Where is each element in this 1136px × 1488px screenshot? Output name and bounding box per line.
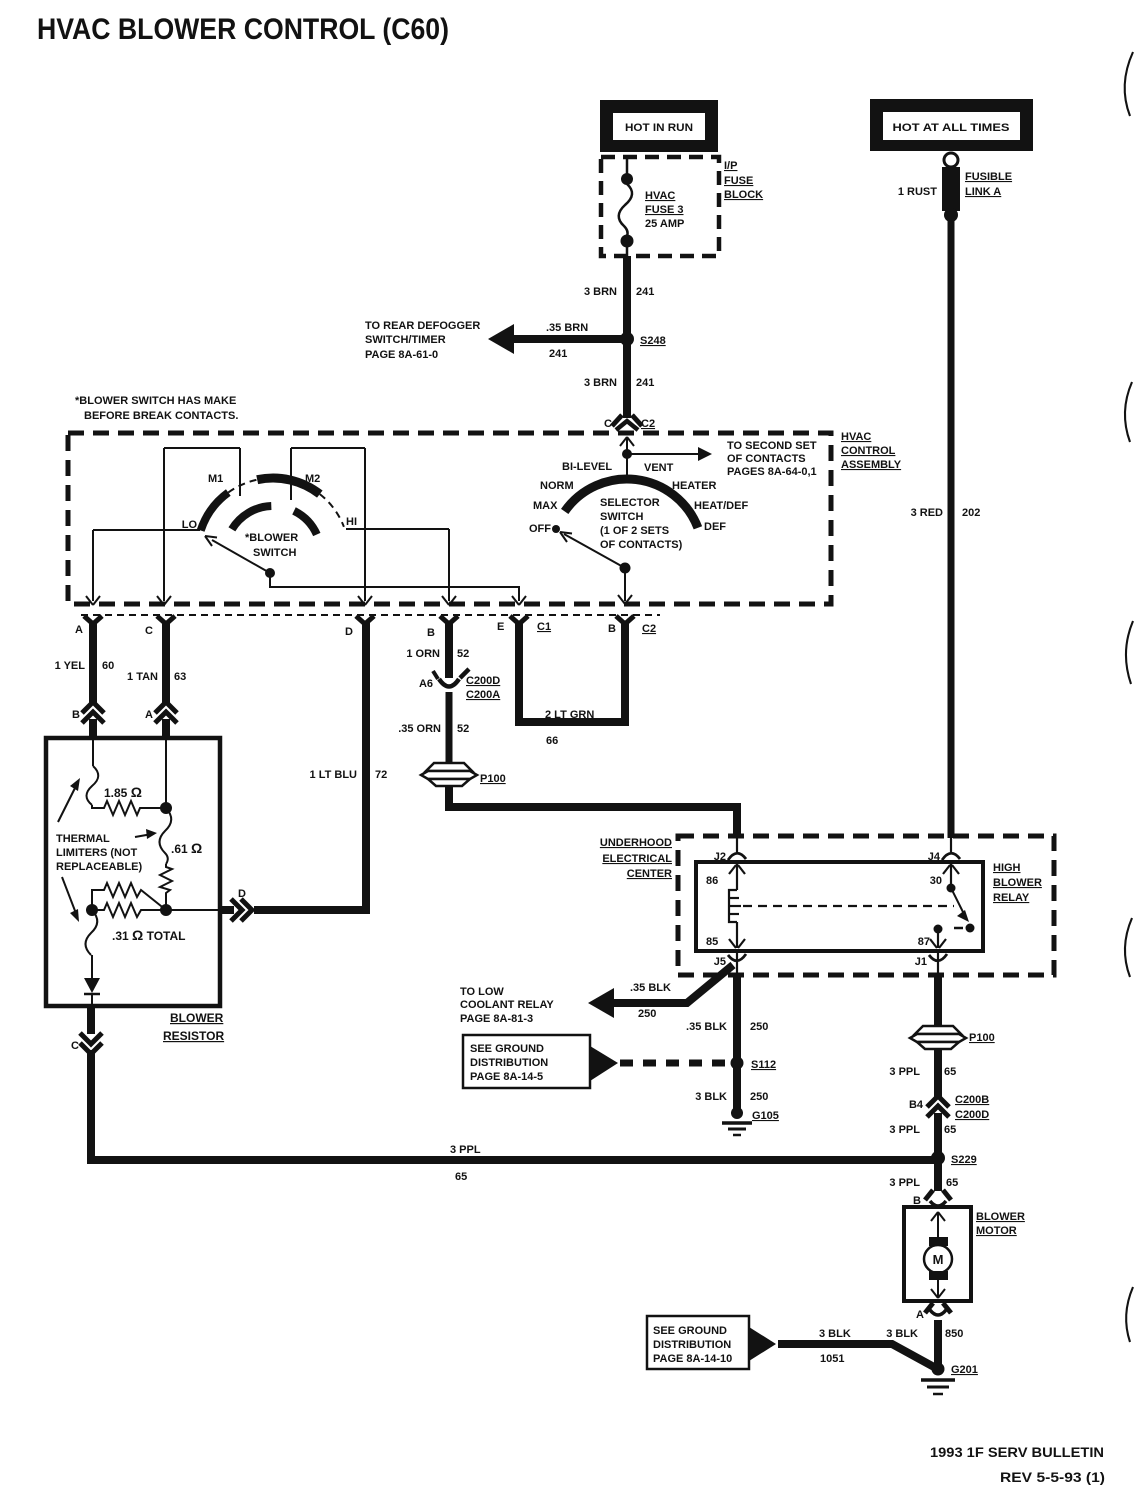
wire stub resistor box edge to connector D: [220, 906, 234, 914]
svg-text:52: 52: [457, 648, 469, 660]
svg-text:S229: S229: [951, 1154, 977, 1166]
svg-text:3 BRN: 3 BRN: [584, 286, 617, 298]
svg-text:B: B: [427, 627, 435, 639]
svg-text:S112: S112: [751, 1059, 776, 1071]
svg-text:ASSEMBLY: ASSEMBLY: [841, 459, 902, 471]
svg-text:.35 BLK: .35 BLK: [630, 982, 671, 994]
fusible link A circle terminal: [944, 153, 958, 167]
svg-text:250: 250: [750, 1021, 768, 1033]
relay switch throw: [947, 884, 970, 923]
wire blower rotor to pin E C1 with arrow: [270, 573, 526, 605]
svg-text:S248: S248: [640, 335, 666, 347]
svg-text:.61 Ω: .61 Ω: [171, 840, 202, 856]
svg-text:241: 241: [636, 286, 654, 298]
svg-text:C200D: C200D: [955, 1109, 989, 1121]
relay contact 87 node and gap: [934, 924, 975, 934]
label TO REAR DEFOGGER SWITCH/TIMER PAGE 8A-61-0: [365, 320, 480, 361]
pin C terminal: [145, 616, 175, 637]
svg-text:CENTER: CENTER: [627, 868, 672, 880]
wire P100 down and right to relay J2: [449, 786, 737, 838]
wire D horizontal run to resistor: [254, 906, 370, 914]
wire 2 LT GRN 66 loop C1 to C2: [519, 621, 625, 747]
blower switch rotor node: [265, 568, 275, 578]
svg-text:C2: C2: [642, 623, 656, 635]
power tag HOT IN RUN: [600, 100, 718, 152]
svg-text:SELECTOR: SELECTOR: [600, 497, 660, 509]
svg-text:1 ORN: 1 ORN: [406, 648, 440, 660]
svg-text:3 PPL: 3 PPL: [889, 1066, 920, 1078]
svg-text:B: B: [608, 623, 616, 635]
svg-text:65: 65: [944, 1124, 956, 1136]
wire LO contact to pin A riser: [93, 529, 200, 531]
wire 3 PPL 65 long run to S229: [91, 1050, 934, 1160]
connector J4 cup: [950, 836, 952, 852]
note *BLOWER SWITCH HAS MAKE BEFORE BREAK CONTACTS.: [75, 395, 238, 422]
svg-text:BEFORE BREAK CONTACTS.: BEFORE BREAK CONTACTS.: [84, 410, 238, 422]
grommet P100: [421, 763, 506, 786]
wire 3 BLK 850 motor to G201: [934, 1320, 942, 1366]
svg-text:241: 241: [549, 348, 567, 360]
wire 1 YEL 60 pin A down: [89, 621, 97, 704]
svg-text:PAGE 8A-14-10: PAGE 8A-14-10: [653, 1353, 732, 1365]
wire 1 TAN 63 pin C down: [162, 621, 170, 704]
svg-text:M1: M1: [208, 473, 223, 485]
label TO LOW COOLANT RELAY PAGE 8A-81-3: [460, 986, 554, 1025]
svg-text:C: C: [604, 418, 612, 430]
svg-text:HIGH: HIGH: [993, 862, 1021, 874]
inline connector B on yellow wire: [72, 702, 104, 723]
svg-text:NORM: NORM: [540, 480, 574, 492]
svg-text:.35 BLK: .35 BLK: [686, 1021, 727, 1033]
svg-text:SWITCH: SWITCH: [253, 547, 296, 559]
wire 1 LT BLU 72 pin D down: [362, 621, 370, 914]
blower switch inner arc right segment: [294, 511, 317, 535]
wire selector rotor to pin B C2 with arrow: [618, 568, 632, 604]
see ground distribution 8A-14-5 box: [463, 1035, 618, 1088]
selector wiper lever: [560, 532, 625, 568]
motor M symbol: [924, 1212, 952, 1298]
svg-text:TO LOW: TO LOW: [460, 986, 504, 998]
svg-text:30: 30: [930, 875, 942, 887]
label BLOWER RESISTOR: [163, 1011, 224, 1043]
node junction lower left: [86, 904, 98, 916]
svg-text:G201: G201: [951, 1364, 978, 1376]
splice S112: [731, 1057, 744, 1070]
svg-text:SWITCH/TIMER: SWITCH/TIMER: [365, 334, 446, 346]
inline connector B4 C200B C200D: [909, 1094, 989, 1121]
svg-text:65: 65: [946, 1177, 958, 1189]
svg-text:MOTOR: MOTOR: [976, 1225, 1017, 1237]
grommet P100 right: [910, 1026, 995, 1049]
connector J5 cup: [736, 951, 738, 975]
diode: [84, 955, 100, 1006]
svg-text:D: D: [238, 888, 246, 900]
resistor .31 ohm upper zigzag: [92, 883, 166, 910]
selector switch arc: [565, 479, 698, 528]
svg-text:REV 5-5-93 (1): REV 5-5-93 (1): [1000, 1470, 1105, 1485]
svg-text:25 AMP: 25 AMP: [645, 218, 684, 230]
svg-text:*BLOWER SWITCH HAS MAKE: *BLOWER SWITCH HAS MAKE: [75, 395, 236, 407]
relay pin 86 arrow up: [706, 864, 745, 890]
svg-text:3 RED: 3 RED: [911, 507, 943, 519]
svg-text:HVAC BLOWER CONTROL (C60): HVAC BLOWER CONTROL (C60): [37, 13, 449, 46]
svg-text:HVAC: HVAC: [841, 431, 871, 443]
svg-text:63: 63: [174, 671, 186, 683]
svg-text:G105: G105: [752, 1110, 779, 1122]
svg-text:C200B: C200B: [955, 1094, 989, 1106]
high blower relay box: [696, 862, 983, 951]
svg-text:J5: J5: [714, 956, 726, 968]
M2 contact riser: [290, 448, 292, 500]
blower switch pin A riser: [92, 530, 94, 601]
svg-text:C1: C1: [537, 621, 551, 633]
blower switch outer arc solid segment M1-M2: [257, 478, 320, 494]
wire 3 BRN 241 fuse to S248: [623, 256, 631, 339]
svg-text:3 BLK: 3 BLK: [886, 1328, 918, 1340]
svg-text:3 BLK: 3 BLK: [695, 1091, 727, 1103]
svg-text:OFF: OFF: [529, 523, 551, 535]
svg-text:DISTRIBUTION: DISTRIBUTION: [653, 1339, 731, 1351]
svg-text:850: 850: [945, 1328, 963, 1340]
pin A terminal: [75, 616, 102, 636]
svg-text:RELAY: RELAY: [993, 892, 1030, 904]
svg-text:*BLOWER: *BLOWER: [245, 532, 298, 544]
node junction 1.85/C leg: [160, 802, 172, 814]
svg-text:C200D: C200D: [466, 675, 500, 687]
svg-text:3 BLK: 3 BLK: [819, 1328, 851, 1340]
connector J1 cup: [937, 951, 939, 975]
svg-text:D: D: [345, 626, 353, 638]
svg-text:52: 52: [457, 723, 469, 735]
svg-text:1051: 1051: [820, 1353, 844, 1365]
blower switch outer arc solid segment LO-M1: [201, 493, 229, 531]
svg-text:M: M: [933, 1252, 944, 1267]
blower switch pin B riser: [448, 529, 450, 601]
wire HI contact to pin B riser: [346, 528, 449, 530]
selector OFF contact node: [552, 525, 560, 533]
svg-text:66: 66: [546, 735, 558, 747]
svg-text:85: 85: [706, 936, 718, 948]
svg-text:87: 87: [918, 936, 930, 948]
resistor vertical on C leg: [160, 864, 172, 908]
inline connector D chevrons: [231, 888, 252, 921]
svg-text:C: C: [71, 1040, 79, 1052]
wire into resistor box from B: [89, 719, 97, 740]
resistor 1.85 ohm: [92, 784, 164, 815]
svg-text:HVAC: HVAC: [645, 190, 675, 202]
wire .35 BRN 241 to rear defogger with arrow: [488, 322, 627, 360]
HVAC control assembly dashed box: [68, 433, 831, 604]
label I/P FUSE BLOCK: [724, 160, 763, 201]
fusible link A body: [942, 167, 960, 211]
svg-text:PAGES 8A-64-0,1: PAGES 8A-64-0,1: [727, 466, 817, 478]
label THERMAL LIMITERS (NOT REPLACEABLE): [56, 833, 143, 873]
splice S229: [931, 1151, 945, 1165]
wire 3 RED 202 fusible link to relay J4: [948, 215, 955, 838]
blower switch outer arc dashed gap: [228, 480, 257, 493]
svg-text:HEATER: HEATER: [672, 480, 716, 492]
svg-text:1.85 Ω: 1.85 Ω: [104, 784, 142, 800]
ground G201: [921, 1363, 978, 1395]
svg-text:J4: J4: [928, 851, 941, 863]
svg-text:VENT: VENT: [644, 462, 674, 474]
inline connector C chevrons: [71, 1033, 102, 1054]
svg-text:J2: J2: [714, 851, 726, 863]
arrow up into assembly from C2: [620, 437, 634, 454]
wire 3 BLK 1051 to G201: [778, 1344, 934, 1367]
svg-text:HI: HI: [346, 516, 357, 528]
svg-text:1 RUST: 1 RUST: [898, 186, 937, 198]
C leg wire into box: [165, 740, 167, 808]
callout arrow to upper limiter: [58, 778, 80, 822]
svg-text:BLOWER: BLOWER: [993, 877, 1042, 889]
pin B connector C2 terminal: [608, 616, 656, 635]
svg-text:SEE GROUND: SEE GROUND: [470, 1043, 544, 1055]
svg-text:C2: C2: [641, 418, 655, 430]
wire J1 down to P100: [934, 973, 942, 1027]
underhood electrical center dashed box: [678, 836, 1054, 975]
svg-text:P100: P100: [969, 1032, 995, 1044]
svg-text:3 PPL: 3 PPL: [889, 1177, 920, 1189]
pin E connector C1 terminal: [497, 616, 551, 633]
motor pin B terminal: [913, 1190, 951, 1207]
connector C2 pin C at HVAC control assembly top: [604, 415, 655, 430]
arrow down at pin C: [157, 596, 171, 605]
relay pin 87 arrow down: [918, 929, 946, 948]
selector position labels: [529, 461, 748, 535]
wire lower junction to box right exit: [166, 909, 218, 911]
relay pin 30 arrow up: [930, 864, 959, 887]
svg-text:OF CONTACTS: OF CONTACTS: [727, 453, 806, 465]
svg-text:BLOWER: BLOWER: [170, 1011, 224, 1025]
thermal limiter .61 ohm: [160, 808, 203, 864]
blower switch top rail left: [164, 447, 240, 449]
svg-text:BLOCK: BLOCK: [724, 189, 763, 201]
svg-text:CONTROL: CONTROL: [841, 445, 896, 457]
label SELECTOR SWITCH (1 OF 2 SETS OF CONTACTS): [600, 497, 683, 551]
arrow down at pin B: [442, 596, 456, 605]
svg-text:HOT IN RUN: HOT IN RUN: [625, 122, 693, 134]
see ground distribution 8A-14-10 box: [647, 1316, 776, 1369]
svg-text:PAGE 8A-81-3: PAGE 8A-81-3: [460, 1013, 533, 1025]
blower switch pin D riser: [364, 448, 366, 601]
svg-text:.35 ORN: .35 ORN: [398, 723, 441, 735]
thermal limiter on A leg: [87, 740, 99, 805]
svg-text:60: 60: [102, 660, 114, 672]
label *BLOWER SWITCH: [245, 532, 298, 559]
svg-text:3 BRN: 3 BRN: [584, 377, 617, 389]
svg-text:A: A: [916, 1309, 924, 1321]
connector J2 cup: [736, 836, 738, 852]
M1 contact riser: [239, 448, 241, 496]
svg-text:HEAT/DEF: HEAT/DEF: [694, 500, 748, 512]
svg-text:1 YEL: 1 YEL: [55, 660, 86, 672]
inline connector A on tan wire: [145, 702, 177, 723]
svg-text:BI-LEVEL: BI-LEVEL: [562, 461, 612, 473]
wire 3 PPL 65 B4 to S229: [934, 1113, 942, 1160]
blower switch wiper lever: [205, 536, 270, 573]
arrow down at pin A: [86, 596, 100, 605]
node junction lower right: [160, 904, 172, 916]
svg-text:2 LT GRN: 2 LT GRN: [545, 709, 594, 721]
pin D terminal: [345, 616, 374, 638]
svg-text:MAX: MAX: [533, 500, 558, 512]
relay coil: [729, 890, 737, 922]
svg-text:BLOWER: BLOWER: [976, 1211, 1025, 1223]
svg-text:HOT AT ALL TIMES: HOT AT ALL TIMES: [893, 122, 1010, 134]
svg-text:FUSE 3: FUSE 3: [645, 204, 684, 216]
blower switch inner arc left segment: [232, 506, 271, 529]
blower switch pin C riser: [163, 448, 165, 601]
arrow down at pin D: [358, 596, 372, 605]
label TO SECOND SET OF CONTACTS PAGES 8A-64-0,1: [727, 440, 817, 478]
connector A6 C200D C200A: [419, 669, 500, 701]
wire 1 ORN 52 pin B down: [445, 621, 453, 678]
blower switch outer arc dashed to HI: [320, 494, 344, 527]
wire 3 PPL 65 P100 to B4: [934, 1050, 942, 1098]
svg-text:PAGE 8A-14-5: PAGE 8A-14-5: [470, 1071, 543, 1083]
label BLOWER MOTOR: [976, 1211, 1025, 1237]
svg-text:I/P: I/P: [724, 160, 737, 172]
I/P fuse block dashed box: [601, 157, 719, 256]
svg-text:P100: P100: [480, 773, 506, 785]
svg-text:RESISTOR: RESISTOR: [163, 1029, 224, 1043]
splice S248: [620, 332, 634, 346]
relay internal dashed link: [743, 905, 954, 907]
svg-text:UNDERHOOD: UNDERHOOD: [600, 837, 672, 849]
svg-text:3 PPL: 3 PPL: [889, 1124, 920, 1136]
wire into resistor box from A: [162, 719, 170, 740]
svg-text:72: 72: [375, 769, 387, 781]
svg-text:A6: A6: [419, 678, 433, 690]
svg-text:(1 OF 2 SETS: (1 OF 2 SETS: [600, 525, 669, 537]
svg-text:.31 Ω TOTAL: .31 Ω TOTAL: [112, 927, 185, 943]
svg-text:B: B: [72, 709, 80, 721]
svg-text:TO REAR DEFOGGER: TO REAR DEFOGGER: [365, 320, 480, 332]
svg-text:SEE GROUND: SEE GROUND: [653, 1325, 727, 1337]
svg-text:THERMAL: THERMAL: [56, 833, 110, 845]
svg-text:1 TAN: 1 TAN: [127, 671, 158, 683]
svg-text:FUSE: FUSE: [724, 175, 753, 187]
svg-text:C: C: [145, 625, 153, 637]
svg-text:TO SECOND SET: TO SECOND SET: [727, 440, 817, 452]
arrow to second set of contacts: [627, 447, 712, 461]
svg-text:202: 202: [962, 507, 980, 519]
motor pin A terminal: [916, 1303, 951, 1321]
wire resistor output pin C down: [87, 1006, 95, 1034]
power tag HOT AT ALL TIMES: [870, 99, 1033, 151]
svg-text:1 LT BLU: 1 LT BLU: [310, 769, 358, 781]
svg-text:65: 65: [944, 1066, 956, 1078]
thermal limiter on output leg: [86, 910, 98, 955]
wire C2 node to selector arc: [626, 454, 628, 480]
wire J5 down to G105: [733, 973, 741, 1112]
svg-text:86: 86: [706, 875, 718, 887]
callout arrow to middle limiter: [135, 829, 157, 839]
pin B terminal: [427, 616, 458, 639]
wire 3 BRN 241 S248 to C2: [623, 339, 631, 418]
node on selector feed: [622, 449, 632, 459]
svg-text:C200A: C200A: [466, 689, 500, 701]
label HIGH BLOWER RELAY: [993, 862, 1042, 904]
svg-text:.35 BRN: .35 BRN: [546, 322, 588, 334]
wire .35 ORN 52: [446, 692, 453, 764]
callout arrow to lower limiter: [62, 877, 79, 922]
svg-text:REPLACEABLE): REPLACEABLE): [56, 861, 143, 873]
svg-text:241: 241: [636, 377, 654, 389]
svg-text:E: E: [497, 621, 504, 633]
svg-text:LINK A: LINK A: [965, 186, 1001, 198]
page curl marks right edge: [1125, 52, 1133, 1342]
label HVAC CONTROL ASSEMBLY: [841, 431, 902, 471]
svg-text:OF CONTACTS): OF CONTACTS): [600, 539, 683, 551]
ground G105: [722, 1107, 779, 1135]
blower resistor box: [46, 738, 220, 1006]
svg-text:SWITCH: SWITCH: [600, 511, 643, 523]
label UNDERHOOD ELECTRICAL CENTER: [600, 837, 672, 880]
relay pin 85 arrow down: [706, 922, 745, 948]
svg-text:DISTRIBUTION: DISTRIBUTION: [470, 1057, 548, 1069]
wire 3 PPL 65 S229 to motor: [934, 1158, 942, 1191]
svg-text:250: 250: [750, 1091, 768, 1103]
blower switch top rail right: [291, 447, 365, 449]
svg-text:65: 65: [455, 1171, 467, 1183]
svg-text:1993 1F SERV BULLETIN: 1993 1F SERV BULLETIN: [930, 1445, 1104, 1460]
resistor .31 ohm lower zigzag: [92, 903, 166, 917]
svg-text:LIMITERS (NOT: LIMITERS (NOT: [56, 847, 138, 859]
svg-text:A: A: [145, 709, 153, 721]
svg-text:3 PPL: 3 PPL: [450, 1144, 481, 1156]
svg-text:250: 250: [638, 1008, 656, 1020]
blower motor box: [904, 1207, 971, 1301]
svg-text:J1: J1: [915, 956, 927, 968]
svg-text:DEF: DEF: [704, 521, 726, 533]
svg-text:B4: B4: [909, 1099, 924, 1111]
selector rotor node: [620, 563, 631, 574]
svg-text:PAGE 8A-61-0: PAGE 8A-61-0: [365, 349, 438, 361]
connector boundary thin dashed line: [81, 614, 660, 616]
svg-text:COOLANT RELAY: COOLANT RELAY: [460, 999, 554, 1011]
svg-text:ELECTRICAL: ELECTRICAL: [602, 853, 672, 865]
fuse HVAC FUSE 3 25 AMP: [619, 155, 685, 256]
wire .35 BLK 250 to low coolant relay: [588, 965, 733, 1020]
svg-text:FUSIBLE: FUSIBLE: [965, 171, 1012, 183]
dashed wire to S112: [620, 1060, 733, 1067]
svg-text:A: A: [75, 624, 83, 636]
footer revision text: [930, 1445, 1105, 1485]
